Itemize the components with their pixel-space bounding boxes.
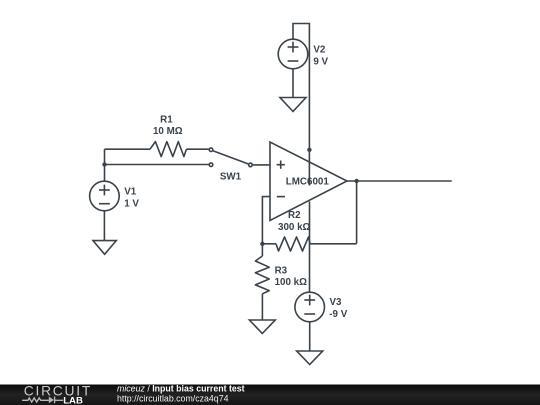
junction dot node B — [260, 242, 264, 246]
resistor R2 — [276, 237, 310, 251]
wire bottom left horizontal — [105, 164, 210, 166]
svg-text:300 kΩ: 300 kΩ — [278, 222, 311, 233]
svg-text:http://circuitlab.com/cza4q74: http://circuitlab.com/cza4q74 — [117, 394, 229, 404]
switch SW1 lever — [213, 151, 248, 164]
voltage source V3 — [295, 292, 325, 322]
op-amp U1 LMC6001 triangle — [270, 142, 347, 221]
op-amp - input mark — [277, 196, 285, 198]
wire V1 to ground — [103, 211, 105, 241]
svg-text:9 V: 9 V — [313, 57, 328, 68]
svg-text:R3: R3 — [275, 265, 288, 276]
svg-text:R1: R1 — [160, 114, 173, 125]
voltage source V2 — [278, 39, 308, 69]
wire node B up to - input — [262, 197, 270, 244]
wire R1 to switch — [186, 148, 208, 150]
wire V2 plus loop to supply rail — [293, 24, 309, 186]
wire V3 to ground — [309, 322, 311, 351]
svg-text:V3: V3 — [330, 297, 343, 308]
junction dot output — [354, 179, 358, 183]
svg-text:V2: V2 — [313, 45, 326, 56]
svg-text:10 MΩ: 10 MΩ — [153, 126, 183, 137]
resistor R3 — [255, 256, 269, 294]
svg-text:SW1: SW1 — [220, 171, 242, 182]
switch SW1 terminal bottom — [209, 163, 213, 167]
svg-text:miceuz / Input bias current te: miceuz / Input bias current test — [117, 384, 245, 394]
wire feedback vertical — [356, 181, 358, 244]
logo diode triangle — [49, 397, 54, 404]
svg-text:100 kΩ: 100 kΩ — [275, 277, 308, 288]
svg-text:LAB: LAB — [63, 395, 83, 405]
wire op-amp output — [347, 180, 452, 182]
switch SW1 terminal top — [209, 148, 213, 152]
svg-text:R2: R2 — [288, 210, 301, 221]
svg-text:LMC6001: LMC6001 — [286, 177, 330, 188]
wire pole to op-amp + input — [253, 164, 270, 166]
ground under R3 — [249, 320, 275, 334]
svg-text:1 V: 1 V — [124, 199, 139, 210]
wire feedback horizontal — [310, 243, 357, 245]
op-amp + input mark — [277, 164, 285, 166]
junction dot node A — [102, 162, 106, 166]
svg-text:V1: V1 — [124, 187, 137, 198]
wire R2 to node B — [262, 243, 276, 245]
logo resistor doodle — [22, 398, 49, 402]
ground under V3 — [297, 351, 323, 365]
ground under V1 — [93, 241, 116, 255]
resistor R1 — [150, 142, 186, 157]
wire R3 to ground — [261, 294, 263, 320]
wire V- pin to V3 — [309, 202, 311, 293]
wire V2 to ground — [292, 69, 294, 98]
wire node B down to R3 — [261, 244, 263, 256]
ground under V2 — [280, 98, 306, 112]
switch SW1 pole — [249, 163, 253, 167]
logo diode doodle — [54, 397, 56, 404]
wire top left horizontal to R1 — [105, 148, 151, 150]
wire left vertical node A — [104, 149, 106, 181]
svg-text:-9 V: -9 V — [329, 309, 347, 320]
voltage source V1 — [90, 181, 120, 211]
junction dot V+ pin — [307, 148, 311, 152]
